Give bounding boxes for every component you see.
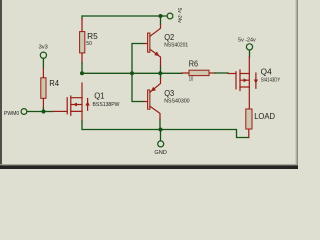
wire PWM terminal to R4 node and Q1 gate [27, 111, 53, 113]
svg-text:50: 50 [86, 41, 92, 47]
ground terminal GND [154, 130, 167, 157]
load resistor LOAD [246, 109, 275, 138]
svg-text:Q2: Q2 [164, 33, 174, 42]
resistor R4 [41, 68, 60, 108]
wire Q2 collector stub [160, 16, 162, 25]
svg-text:SI4143DY: SI4143DY [261, 78, 281, 84]
wire mid rail (R5/Q1 drain node to R6) [82, 72, 182, 74]
svg-text:Q1: Q1 [94, 91, 105, 100]
junction mid rail / R5-Q1 [80, 71, 84, 75]
wire Q3 collector stub [159, 119, 161, 130]
svg-text:R4: R4 [49, 79, 59, 88]
wire R4 bottom stub [42, 108, 44, 112]
junction top rail / Q2 collector [159, 14, 163, 18]
junction mid rail / bases [130, 71, 134, 75]
svg-text:5v -24v: 5v -24v [176, 8, 182, 23]
svg-text:R6: R6 [189, 60, 199, 69]
transistor Q2 NSS40201 (NPN) [144, 25, 188, 67]
wire R5 bottom to mid node [81, 63, 83, 73]
resistor R5 [80, 19, 99, 63]
junction PWM / R4 [42, 110, 46, 114]
svg-text:BSS138PW: BSS138PW [93, 102, 121, 108]
svg-text:5v -24v: 5v -24v [238, 38, 256, 44]
svg-text:R5: R5 [87, 32, 98, 41]
wire Q3 emitter stub [160, 73, 162, 78]
svg-text:LOAD: LOAD [254, 112, 275, 121]
svg-text:PWM0: PWM0 [4, 111, 19, 117]
svg-text:NSS40300: NSS40300 [164, 99, 189, 105]
junction mid rail / emitters [158, 71, 162, 75]
transistor Q3 NSS40300 (PNP) [144, 79, 190, 120]
terminal PWM0 input [4, 109, 27, 117]
svg-text:NSS40201: NSS40201 [164, 42, 188, 48]
svg-text:GND: GND [154, 150, 167, 156]
wire Q2 base to Q3 base vertical [132, 44, 144, 102]
wire top rail from R5 top to supply terminal [82, 16, 167, 19]
transistor Q1 BSS138PW (N-MOSFET) [53, 83, 120, 121]
wire Q1 source to bottom rail to LOAD [82, 121, 249, 138]
power terminal 5v-24v (above Q4) [238, 38, 256, 57]
window frame edges (decorative) [0, 0, 2, 169]
svg-text:10: 10 [189, 77, 194, 83]
wire R6 to Q4 gate [215, 72, 228, 74]
svg-text:Q4: Q4 [261, 67, 272, 76]
wire Q2 emitter stub [160, 66, 162, 73]
power terminal 5v-24v (rotated label, top middle) [167, 8, 182, 23]
transistor Q4 SI4143DY (P-MOSFET) [228, 57, 281, 109]
resistor R6 [182, 60, 215, 83]
svg-text:3v3: 3v3 [39, 45, 48, 51]
junction bottom rail / GND [159, 128, 163, 132]
power terminal 3v3 [39, 45, 48, 69]
svg-text:Q3: Q3 [164, 89, 174, 98]
